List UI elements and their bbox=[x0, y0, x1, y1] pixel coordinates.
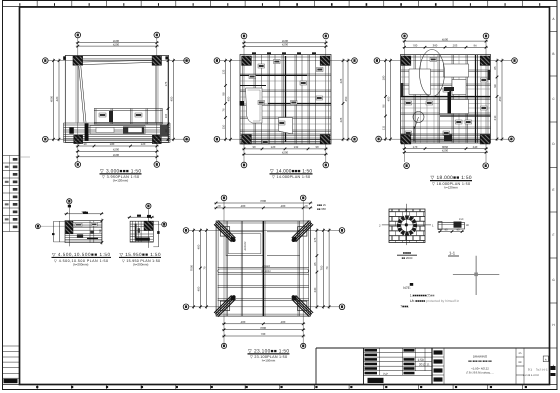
svg-text:700: 700 bbox=[413, 44, 418, 48]
plan1 column bottom-left bbox=[74, 135, 83, 143]
plan2 bottom dimension lines bbox=[242, 148, 328, 150]
plan1 axis bubble 1 top-left bbox=[75, 32, 81, 38]
plan2 axis bubble right-top bbox=[352, 58, 358, 64]
bigplan lower horizontal beams bbox=[218, 285, 309, 287]
svg-text:40: 40 bbox=[456, 228, 460, 232]
svg-text:760: 760 bbox=[261, 332, 266, 336]
svg-text:▽ 4.500,10.500■■ 1:50: ▽ 4.500,10.500■■ 1:50 bbox=[52, 252, 110, 257]
svg-text:360: 360 bbox=[433, 44, 438, 48]
bigplan axis bubble top-left bbox=[221, 195, 227, 201]
plan3 left dimension lines bbox=[385, 59, 387, 141]
svg-text:115: 115 bbox=[164, 113, 168, 118]
svg-text:450: 450 bbox=[387, 96, 391, 101]
plan2 title 14.000 bbox=[270, 168, 313, 179]
bigplan axis bubble left-bottom bbox=[183, 304, 189, 310]
svg-text:4.2 23 1.3 0.0: 4.2 23 1.3 0.0 bbox=[523, 374, 539, 377]
svg-text:7000: 7000 bbox=[260, 326, 267, 330]
svg-text:■■■■: ■■■■ bbox=[403, 251, 411, 255]
svg-text:(h=200mm): (h=200mm) bbox=[73, 263, 88, 267]
svg-text:175: 175 bbox=[164, 81, 168, 86]
bigplan upper-right bay lines bbox=[267, 231, 300, 233]
bigplan axis bubble bottom-right bbox=[301, 343, 306, 348]
title block left table bbox=[364, 352, 433, 354]
plan3 title 18.000 bbox=[430, 175, 472, 189]
plan1 title 3.000 bbox=[100, 168, 142, 182]
plan1 lower beam band bbox=[94, 108, 163, 110]
svg-text:70: 70 bbox=[217, 204, 221, 208]
svg-text:210: 210 bbox=[493, 115, 497, 120]
plan1 axis bubble 2 top-right bbox=[154, 32, 160, 38]
detailA title bbox=[52, 252, 112, 267]
detailA axis bubble top bbox=[67, 199, 72, 204]
detailB axis bubble top bbox=[146, 203, 151, 208]
plan3 axis bubble right-bottom bbox=[509, 136, 515, 142]
svg-text:420: 420 bbox=[55, 96, 59, 101]
svg-text:13: 13 bbox=[164, 129, 168, 133]
crosshair marker bbox=[453, 273, 499, 275]
bigplan upper inner rect bbox=[226, 232, 263, 256]
bigplan corner brace bottom-right bbox=[292, 299, 310, 317]
section 1-1 dims bbox=[438, 231, 464, 233]
plan2 lower void bbox=[279, 118, 293, 135]
svg-text:180: 180 bbox=[110, 142, 115, 146]
detailA column hatched bbox=[66, 221, 74, 234]
plan3 revision ellipse bbox=[420, 50, 445, 97]
svg-text:98: 98 bbox=[222, 92, 226, 96]
svg-text:450: 450 bbox=[344, 96, 348, 101]
svg-text:■■ 2000: ■■ 2000 bbox=[402, 256, 413, 260]
bigplan center column line bbox=[262, 221, 264, 316]
bigplan right dimensions bbox=[316, 228, 318, 308]
plan3 right dimension lines bbox=[496, 59, 498, 141]
plan1 column top-right bbox=[152, 56, 161, 65]
svg-text:94: 94 bbox=[473, 44, 477, 48]
plan2 axis bubble left-top bbox=[214, 58, 220, 64]
svg-text:225: 225 bbox=[339, 117, 343, 122]
plan2 axis bubble right-bottom bbox=[352, 136, 358, 142]
svg-text:1.■■■■■■■(7)■■: 1.■■■■■■■(7)■■ bbox=[410, 294, 435, 298]
svg-text:170: 170 bbox=[413, 145, 418, 149]
plan3 top dimension lines bbox=[403, 40, 489, 42]
svg-text:#5.9##2: #5.9##2 bbox=[261, 270, 271, 273]
plan2 axis bubble bottom-right bbox=[323, 162, 329, 168]
svg-text:h=120mm: h=120mm bbox=[444, 185, 458, 189]
plan2 right dimension lines bbox=[342, 59, 344, 142]
brick flue circle ring bbox=[397, 216, 417, 236]
plan3 columns bbox=[401, 56, 411, 65]
svg-text:400: 400 bbox=[281, 320, 286, 324]
plan3 interior beam grid bbox=[413, 55, 415, 143]
plan3 axis bubble top-left bbox=[402, 33, 408, 39]
svg-text:180: 180 bbox=[382, 75, 386, 80]
bigplan corner brace top-left bbox=[218, 221, 236, 239]
svg-text:90: 90 bbox=[98, 229, 102, 233]
plan3 bottom slab band bbox=[401, 133, 491, 135]
brick detail centerlines bbox=[382, 224, 431, 226]
bottom-left margin table bbox=[3, 345, 20, 347]
svg-text:85: 85 bbox=[313, 262, 317, 266]
svg-text:2012.11: 2012.11 bbox=[419, 362, 430, 366]
svg-text:400: 400 bbox=[241, 204, 246, 208]
plan2 interior beam grid bbox=[253, 55, 255, 144]
svg-text:0 1: 0 1 bbox=[528, 368, 532, 372]
plan1 right dimension lines bbox=[167, 59, 169, 142]
plan3 axis bubble bottom-right bbox=[483, 163, 489, 169]
svg-text:700: 700 bbox=[319, 265, 323, 270]
svg-text:400: 400 bbox=[281, 204, 286, 208]
plan1 axis grid lines bbox=[77, 38, 79, 162]
svg-text:(h=120mm): (h=120mm) bbox=[113, 179, 128, 183]
svg-text:4200: 4200 bbox=[442, 149, 449, 153]
plan1 axis bubble right-bottom bbox=[184, 136, 190, 142]
svg-text:4200: 4200 bbox=[113, 148, 120, 152]
svg-text:400: 400 bbox=[196, 244, 200, 249]
title block outline bbox=[316, 347, 550, 349]
svg-text:85: 85 bbox=[493, 66, 497, 70]
plan2 beam tags bbox=[258, 64, 265, 68]
svg-text:(h=200mm): (h=200mm) bbox=[133, 263, 148, 267]
bigplan axis bubble right-bottom bbox=[339, 304, 345, 310]
bigplan title 23.100 bbox=[248, 348, 290, 362]
svg-text:1-1: 1-1 bbox=[449, 251, 456, 256]
detailB top dimension bbox=[128, 216, 155, 218]
svg-text:150: 150 bbox=[459, 218, 464, 221]
title block right part bbox=[432, 356, 444, 358]
svg-text:(7.50 25/5.50) railway......: (7.50 25/5.50) railway...... bbox=[466, 372, 494, 375]
svg-text:N7E:: N7E: bbox=[403, 286, 411, 290]
svg-text:▽ 15.950■■ 1:50: ▽ 15.950■■ 1:50 bbox=[120, 252, 161, 257]
svg-text:90: 90 bbox=[83, 142, 87, 146]
svg-text:▽ 14.000PLAN 1:50: ▽ 14.000PLAN 1:50 bbox=[272, 175, 310, 179]
plan2 stair void bbox=[246, 88, 263, 123]
svg-text:120: 120 bbox=[271, 145, 276, 149]
detailB title bbox=[119, 252, 161, 267]
svg-text:225: 225 bbox=[339, 78, 343, 83]
plan1 axis bubble bottom-right bbox=[154, 162, 160, 168]
plan1 axis bubble right-top bbox=[184, 58, 190, 64]
plan1 column bottom-right bbox=[152, 135, 161, 143]
note text block bbox=[410, 283, 413, 286]
svg-text:450: 450 bbox=[227, 96, 231, 101]
detailB body bbox=[130, 221, 153, 242]
svg-text:F: F bbox=[553, 233, 555, 237]
plan3 beam tags bbox=[405, 101, 412, 105]
svg-text:70: 70 bbox=[203, 266, 207, 270]
svg-text:7a 2 1 0 C: 7a 2 1 0 C bbox=[536, 369, 548, 372]
svg-text:96: 96 bbox=[382, 104, 386, 108]
bigplan axis lines bbox=[223, 201, 225, 344]
bigplan wall outline bbox=[216, 221, 310, 316]
detailB right dim bbox=[158, 221, 160, 247]
detailA body bbox=[65, 221, 102, 243]
svg-text:110: 110 bbox=[222, 124, 226, 129]
svg-text:111: 111 bbox=[382, 125, 386, 130]
plan3 axis bubble top-right bbox=[483, 33, 489, 39]
right margin strip with zone letters bbox=[549, 7, 551, 385]
title block main divider bbox=[431, 348, 433, 384]
top ruler strip bbox=[3, 6, 558, 8]
svg-text:175: 175 bbox=[313, 237, 317, 242]
svg-text:230: 230 bbox=[313, 287, 317, 292]
detailB axis bubble right bbox=[162, 222, 167, 227]
detailA top dimension bbox=[64, 213, 103, 215]
svg-text:76: 76 bbox=[222, 108, 226, 112]
bigplan axis bubble left-top bbox=[183, 228, 189, 234]
plan1 axis bubble A left-bottom bbox=[43, 136, 49, 142]
left margin line bbox=[19, 7, 21, 385]
svg-text:A: A bbox=[545, 358, 547, 361]
bigplan corner brace top-right bbox=[296, 224, 314, 242]
plan2 axis bubble bottom-left bbox=[241, 162, 247, 168]
svg-text:132: 132 bbox=[294, 145, 299, 149]
plan2 axis bubble top-left bbox=[241, 33, 247, 39]
svg-text:400: 400 bbox=[241, 320, 246, 324]
plan2 axis bubble left-bottom bbox=[214, 136, 220, 142]
svg-text:203: 203 bbox=[453, 44, 458, 48]
svg-text:90: 90 bbox=[252, 145, 256, 149]
svg-text:■■ ■■■ ■■ ■■■ ■■: ■■ ■■■ ■■ ■■■ ■■ bbox=[468, 359, 492, 363]
bigplan corner brace bottom-left bbox=[214, 295, 232, 313]
svg-text:4X####: 4X#### bbox=[244, 241, 247, 251]
svg-text:b2: b2 bbox=[384, 373, 388, 377]
detailA axis lines bbox=[68, 204, 70, 246]
plan1 sloped roof edge lines bbox=[83, 60, 153, 62]
svg-text:4500: 4500 bbox=[442, 37, 449, 41]
svg-text:4200: 4200 bbox=[113, 42, 120, 46]
plan1 left dimension lines bbox=[53, 59, 55, 142]
plan2 axis grid lines bbox=[243, 40, 245, 162]
plan3 axis bubble right-top bbox=[512, 58, 518, 64]
svg-text:4500: 4500 bbox=[113, 153, 120, 157]
plan2 left dimension lines bbox=[225, 59, 227, 142]
detailA left dim bbox=[53, 221, 55, 242]
plan1 top dimension lines bbox=[76, 42, 159, 44]
svg-text:45A##: 45A## bbox=[262, 264, 271, 268]
svg-text:<1:50> NO.22: <1:50> NO.22 bbox=[471, 367, 489, 371]
svg-text:4500: 4500 bbox=[50, 95, 54, 102]
svg-text:7000: 7000 bbox=[260, 199, 267, 203]
plan2 bottom slab band bbox=[240, 133, 331, 135]
detailA axis bubble left bbox=[36, 224, 41, 229]
svg-text:4200: 4200 bbox=[282, 150, 289, 154]
svg-text:240: 240 bbox=[473, 145, 478, 149]
svg-text:70: 70 bbox=[304, 204, 308, 208]
plan2 top dimension lines bbox=[242, 42, 328, 44]
svg-text:98: 98 bbox=[493, 84, 497, 88]
svg-text:h=150mm: h=150mm bbox=[262, 359, 276, 363]
svg-text:450: 450 bbox=[498, 96, 502, 101]
plan3 axis bubble bottom-left bbox=[404, 163, 410, 169]
bigplan top dimensions bbox=[214, 202, 312, 204]
detailA right dim bbox=[101, 219, 103, 245]
bigplan bottom dimensions bbox=[222, 323, 305, 325]
detailB column hatched bbox=[144, 221, 153, 230]
plan3 white openings bbox=[444, 64, 469, 77]
svg-text:1/b ■■■■■ protected by himself: 1/b ■■■■■ protected by himself in bbox=[410, 299, 460, 303]
detailB axis lines bbox=[147, 208, 149, 248]
svg-text:1:50: 1:50 bbox=[418, 358, 424, 362]
brick flue detail square bbox=[389, 209, 425, 243]
svg-text:400: 400 bbox=[196, 286, 200, 291]
svg-text:B: B bbox=[552, 52, 554, 56]
svg-text:E: E bbox=[552, 188, 554, 192]
left margin revision table bbox=[3, 155, 20, 157]
svg-text:40: 40 bbox=[444, 228, 448, 232]
section 1-1 bar bbox=[438, 223, 465, 230]
bigplan axis bubble right-top bbox=[339, 228, 345, 234]
plan3 axis bubble left-top bbox=[374, 58, 380, 64]
plan1 column top-left bbox=[73, 56, 83, 65]
plan2 columns bbox=[242, 56, 252, 65]
svg-text:■■ 360: ■■ 360 bbox=[317, 207, 326, 211]
svg-text:70: 70 bbox=[325, 266, 329, 270]
svg-text:120: 120 bbox=[141, 142, 146, 146]
svg-text:90: 90 bbox=[315, 145, 319, 149]
plan2 axis bubble top-right bbox=[323, 33, 329, 39]
bigplan axis bubble top-right bbox=[300, 195, 306, 201]
bottom ruler strip bbox=[3, 384, 558, 386]
plan1 axis bubble A left-top bbox=[43, 58, 49, 64]
plan3 axis bubble left-bottom bbox=[376, 136, 382, 142]
plan2 wall outline bbox=[240, 55, 331, 145]
svg-text:7■■■.: 7■■■. bbox=[400, 305, 409, 309]
bigplan left dimensions bbox=[193, 228, 195, 308]
plan3 axis grid lines bbox=[404, 40, 406, 162]
svg-text:7000: 7000 bbox=[190, 264, 194, 271]
plan1 bottom slab band bbox=[64, 122, 171, 124]
bigplan axis bubble bottom-left bbox=[221, 343, 226, 348]
bigplan mid horizontal beam slot bbox=[218, 266, 309, 268]
plan1 bottom dimension lines bbox=[76, 145, 159, 147]
plan3 small circle detail bbox=[413, 112, 424, 123]
svg-text:DRAWING: DRAWING bbox=[473, 355, 488, 359]
plan1 axis bubble bottom-left bbox=[75, 162, 81, 168]
plan3 bottom dimension lines bbox=[403, 148, 489, 150]
plan3 wall outline bbox=[401, 55, 491, 144]
svg-text:450: 450 bbox=[170, 96, 174, 101]
svg-text:132: 132 bbox=[222, 69, 226, 74]
svg-text:4200: 4200 bbox=[282, 43, 289, 47]
plan1 wall outline bbox=[65, 56, 168, 143]
